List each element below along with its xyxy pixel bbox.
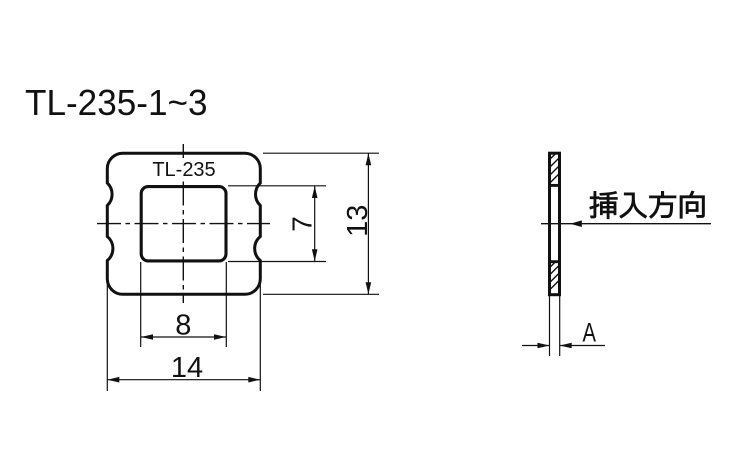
insertion direction line bbox=[541, 223, 711, 225]
svg-text:13: 13 bbox=[342, 205, 374, 237]
dim 7: extension lines bbox=[228, 185, 326, 187]
side view: hole top edge bbox=[550, 184, 560, 187]
svg-text:14: 14 bbox=[171, 352, 203, 384]
side view: section rectangle bbox=[550, 153, 560, 295]
dim A: dimension line right with arrow bbox=[560, 345, 605, 347]
hatching top section bbox=[543, 139, 570, 190]
svg-text:7: 7 bbox=[287, 216, 318, 232]
dim A: extension lines bbox=[549, 296, 551, 356]
insertion direction arrowhead bbox=[570, 220, 582, 227]
label TL-235 (white backed) bbox=[152, 158, 216, 179]
dim 8: dimension line with arrows bbox=[141, 336, 226, 338]
text 挿入方向 (drawn glyph paths) bbox=[590, 191, 704, 218]
dim 13: extension lines bbox=[263, 152, 379, 154]
dim 13: dimension line with arrows bbox=[367, 153, 369, 294]
svg-text:TL-235: TL-235 bbox=[152, 159, 215, 181]
hatching bottom section bbox=[543, 247, 570, 296]
dim 7: dimension line with arrows bbox=[314, 186, 316, 261]
inner square hole bbox=[141, 187, 226, 261]
dim A: dimension line left with arrow bbox=[522, 345, 550, 347]
centerline horizontal of front view bbox=[97, 223, 270, 225]
part outline (outer profile with side notches) bbox=[107, 153, 260, 294]
side view: hole bottom edge bbox=[550, 260, 560, 263]
svg-text:TL-235-1~3: TL-235-1~3 bbox=[25, 82, 208, 123]
centerline vertical of front view bbox=[182, 144, 184, 303]
dim 8: extension lines bbox=[140, 262, 142, 347]
dim 14: extension lines bbox=[106, 282, 108, 391]
svg-text:A: A bbox=[583, 317, 597, 347]
svg-text:8: 8 bbox=[175, 310, 191, 342]
dim 14: dimension line with arrows bbox=[107, 379, 260, 381]
